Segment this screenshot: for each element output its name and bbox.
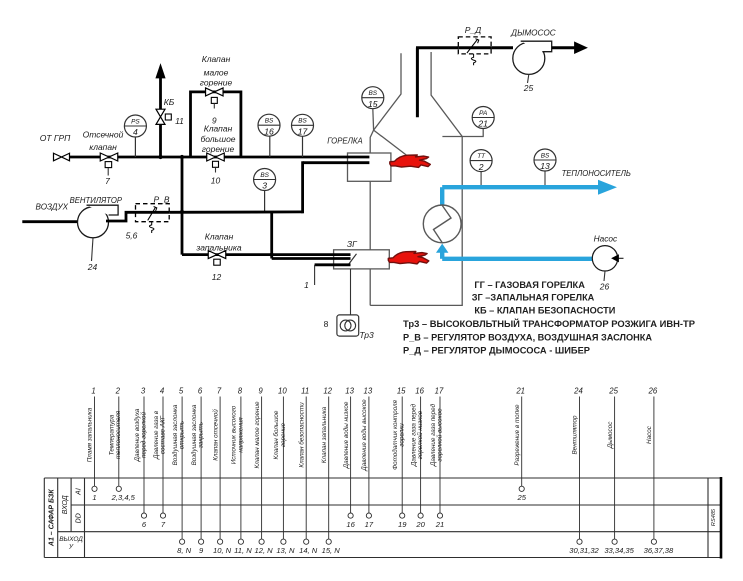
svg-text:17: 17 [298,127,309,137]
svg-text:15: 15 [368,99,378,109]
svg-text:горение: горение [202,144,235,154]
svg-text:клапан: клапан [89,142,117,152]
svg-text:21: 21 [515,387,525,396]
svg-text:горелкой низкое: горелкой низкое [416,410,424,459]
svg-text:20: 20 [415,520,425,529]
svg-text:5: 5 [179,387,184,396]
svg-text:13, N: 13, N [276,546,295,555]
svg-text:Отсечной: Отсечной [83,130,124,140]
svg-text:25: 25 [516,493,526,502]
svg-text:закрыть: закрыть [198,422,205,449]
svg-text:напряжения: напряжения [237,417,244,453]
svg-text:7: 7 [217,387,222,396]
svg-text:Р_Д – РЕГУЛЯТОР ДЫМОСОСА - ШИБ: Р_Д – РЕГУЛЯТОР ДЫМОСОСА - ШИБЕР [403,345,590,356]
svg-text:ЗГ: ЗГ [347,239,358,249]
svg-text:ВЫХОД: ВЫХОД [59,536,83,543]
svg-text:1: 1 [304,280,309,290]
svg-text:2: 2 [115,387,121,396]
svg-text:1: 1 [91,387,95,396]
svg-text:30,31,32: 30,31,32 [569,546,599,555]
svg-text:12: 12 [323,387,332,396]
svg-text:Разрежение в топке: Разрежение в топке [514,404,521,466]
svg-text:Пламя запальника: Пламя запальника [87,407,94,462]
svg-text:Р_Д: Р_Д [465,25,481,35]
svg-text:Давление воды низкое: Давление воды низкое [342,401,350,469]
svg-text:запальника: запальника [195,243,241,253]
svg-text:горение: горение [280,422,287,447]
svg-text:большое: большое [200,134,235,144]
svg-text:BS: BS [369,90,378,97]
svg-text:TT: TT [477,153,486,160]
svg-text:2,3,4,5: 2,3,4,5 [111,493,136,502]
svg-text:11: 11 [301,387,309,396]
svg-text:25: 25 [608,387,618,396]
svg-text:15, N: 15, N [322,546,341,555]
svg-text:Р_В: Р_В [153,195,169,205]
svg-text:Дымосос: Дымосос [607,421,614,450]
svg-text:16: 16 [415,387,424,396]
svg-text:BS: BS [541,152,550,159]
svg-text:Тр3: Тр3 [359,330,374,340]
svg-text:Клапан: Клапан [202,54,231,64]
svg-text:Вентилятор: Вентилятор [572,415,579,455]
svg-text:ГГ – ГАЗОВАЯ ГОРЕЛКА: ГГ – ГАЗОВАЯ ГОРЕЛКА [474,279,585,290]
svg-text:12, N: 12, N [255,546,274,555]
svg-text:RS485: RS485 [711,508,717,526]
svg-text:8: 8 [238,387,243,396]
svg-text:ТЕПЛОНОСИТЕЛЬ: ТЕПЛОНОСИТЕЛЬ [562,168,632,178]
svg-text:24: 24 [573,387,583,396]
svg-text:7: 7 [105,176,110,186]
svg-text:25: 25 [523,83,534,93]
svg-text:BS: BS [260,172,269,179]
svg-text:17: 17 [365,520,374,529]
svg-text:ЗГ –ЗАПАЛЬНАЯ ГОРЕЛКА: ЗГ –ЗАПАЛЬНАЯ ГОРЕЛКА [472,292,595,303]
svg-text:А1 – САФАР БЗК: А1 – САФАР БЗК [49,489,56,547]
svg-text:11: 11 [175,116,184,126]
svg-text:малое: малое [204,68,229,78]
svg-text:Тр3 – ВЫСОКОВЛЬТНЫЙ ТРАНСФОРМА: Тр3 – ВЫСОКОВЛЬТНЫЙ ТРАНСФОРМАТОР РОЗЖИГ… [403,318,695,329]
svg-text:17: 17 [435,387,444,396]
svg-text:Клапан малое горение: Клапан малое горение [254,401,261,468]
svg-text:КБ: КБ [164,97,175,107]
svg-text:ВХОД: ВХОД [62,495,69,514]
svg-text:ВЕНТИЛЯТОР: ВЕНТИЛЯТОР [70,195,123,205]
svg-text:13: 13 [364,387,373,396]
svg-text:Клапан запальника: Клапан запальника [321,406,328,463]
svg-text:21: 21 [477,119,488,129]
svg-text:13: 13 [540,161,550,171]
svg-text:8: 8 [324,319,329,329]
svg-text:перед горелкой: перед горелкой [139,412,147,458]
svg-text:26: 26 [648,387,658,396]
svg-text:открыть: открыть [179,421,186,449]
svg-text:ДЫМОСОС: ДЫМОСОС [510,28,556,38]
svg-text:КБ – КЛАПАН БЕЗОПАСНОСТИ: КБ – КЛАПАН БЕЗОПАСНОСТИ [474,305,615,316]
svg-text:16: 16 [264,126,274,136]
svg-text:У: У [68,544,74,551]
svg-text:горелки: горелки [399,423,406,447]
svg-text:Клапан безопасности: Клапан безопасности [297,402,305,468]
svg-text:Клапан: Клапан [205,232,234,242]
svg-text:12: 12 [212,272,222,282]
svg-text:6: 6 [198,387,203,396]
svg-text:AI: AI [75,488,82,496]
svg-text:4: 4 [160,387,165,396]
svg-text:24: 24 [87,262,98,272]
svg-text:13: 13 [345,387,354,396]
svg-text:10: 10 [211,176,221,186]
svg-text:BS: BS [298,118,307,125]
svg-text:Р_В – РЕГУЛЯТОР ВОЗДУХА, ВОЗДУ: Р_В – РЕГУЛЯТОР ВОЗДУХА, ВОЗДУШНАЯ ЗАСЛО… [403,332,652,343]
svg-text:36,37,38: 36,37,38 [644,546,674,555]
svg-text:15: 15 [397,387,406,396]
svg-text:теплоносителя: теплоносителя [115,410,122,459]
svg-text:ГОРЕЛКА: ГОРЕЛКА [327,135,363,145]
svg-text:10, N: 10, N [213,546,232,555]
svg-text:33,34,35: 33,34,35 [604,546,634,555]
svg-text:составе АКГ: составе АКГ [159,415,166,454]
svg-text:Клапан отсечной: Клапан отсечной [211,409,219,461]
svg-text:горелкой высокое: горелкой высокое [435,408,443,462]
svg-text:BS: BS [265,118,274,125]
svg-text:14, N: 14, N [299,546,318,555]
svg-text:3: 3 [141,387,146,396]
svg-text:11, N: 11, N [234,546,252,555]
svg-text:Насос: Насос [646,425,653,444]
svg-text:Клапан: Клапан [204,124,233,134]
svg-text:26: 26 [599,282,610,292]
svg-text:4: 4 [133,127,138,137]
svg-text:ОТ ГРП: ОТ ГРП [40,133,71,143]
svg-text:горение: горение [200,78,233,88]
svg-text:PS: PS [131,118,140,125]
svg-text:1: 1 [92,493,96,502]
svg-text:8, N: 8, N [177,546,191,555]
svg-text:Насос: Насос [594,234,618,244]
svg-text:21: 21 [435,520,444,529]
svg-text:2: 2 [478,162,484,172]
svg-text:9: 9 [258,387,263,396]
svg-text:DD: DD [75,513,82,523]
svg-text:19: 19 [398,520,407,529]
svg-text:3: 3 [262,181,267,191]
svg-text:16: 16 [346,520,355,529]
svg-text:Давление воды высокое: Давление воды высокое [360,399,368,472]
svg-text:10: 10 [278,387,287,396]
svg-text:PA: PA [479,110,487,117]
svg-text:ВОЗДУХ: ВОЗДУХ [36,201,69,211]
svg-text:5,6: 5,6 [126,231,138,241]
